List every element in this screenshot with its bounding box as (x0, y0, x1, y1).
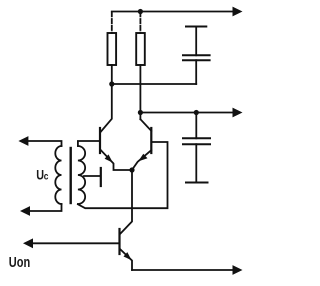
wire Q3 emitter output (132, 269, 234, 271)
wire primary bottom lead to input (30, 204, 62, 211)
transformer core (69, 148, 71, 203)
resistor R2 (136, 33, 145, 65)
node common emitter junction dot (129, 167, 134, 172)
transistor Q2 (132, 119, 151, 169)
wire output rail 2 (140, 112, 233, 114)
node junction dot rail2 C2 (194, 110, 199, 115)
wire primary top lead to input (29, 141, 62, 146)
wire R1 bottom lead (111, 65, 113, 84)
wire top supply rail (112, 11, 234, 13)
node input arrow top left (18, 136, 28, 146)
wire node A to C1 (112, 83, 196, 85)
capacitor C1 (183, 27, 210, 85)
wire Uon input to Q3 base (33, 242, 119, 244)
transistor Q3 (120, 170, 133, 270)
node input arrow bottom left (20, 206, 30, 216)
transistor Q1 (100, 84, 132, 170)
node top rail right arrow (233, 7, 243, 17)
wire Q2 base feedback to secondary bottom (78, 142, 168, 208)
transformer primary winding L1 (55, 146, 61, 204)
wire secondary center tap (84, 175, 100, 177)
svg-text:Uon: Uon (9, 254, 31, 271)
node junction dot A (109, 81, 114, 86)
node Uon arrow (23, 238, 33, 248)
resistor R1 (108, 33, 117, 65)
node junction dot top rail (138, 9, 143, 14)
transformer secondary winding L2 (78, 146, 85, 204)
node junction dot rail2 left (138, 110, 143, 115)
node rail2 right arrow (233, 108, 243, 118)
node tap terminal bar (100, 168, 102, 186)
wire R2 bottom lead to T2 collector (139, 65, 141, 119)
wire secondary top to Q1 base (78, 141, 99, 146)
capacitor C2 (183, 113, 210, 183)
node output arrow bottom (233, 265, 243, 275)
wire dashed lead R1 top (111, 12, 113, 33)
wire dashed lead R2 top (139, 12, 141, 33)
